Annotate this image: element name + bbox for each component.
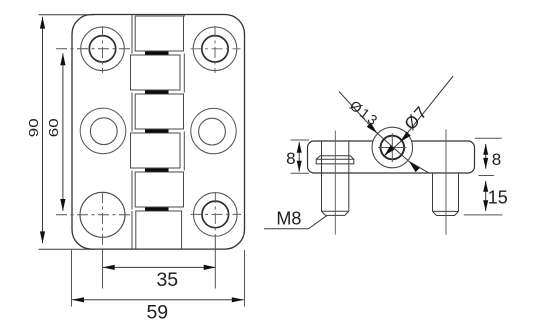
knuckle box 3 [135,94,183,129]
bolt right: shank [433,173,459,211]
knuckle gap mark 4 [145,169,169,172]
screw M8 left: chamfered tip [322,211,349,215]
knuckle gap mark 1 [145,52,169,55]
knuckle box 4 [131,133,181,168]
knuckle box 5 [135,172,183,207]
hole bottom-left [56,192,130,249]
diameter 7 leader line [384,76,453,156]
hole middle-left [80,108,126,154]
bolt right: centerline [445,129,447,234]
hole bottom-right [191,192,242,236]
knuckle box 6 [136,211,182,249]
diameter 13 arrowheads [367,123,378,134]
svg-text:Ø13: Ø13 [347,97,382,129]
hole top-left [56,26,131,73]
knuckle gap mark 5 [145,208,169,211]
hole middle-right [191,108,236,153]
knuckle barrel outer circle [372,127,413,168]
dimension 35 [103,236,216,289]
dimension 8 left [291,140,310,173]
screw M8 left: hole/shank lines [322,141,349,211]
diameter 13 leader line [339,92,429,174]
svg-text:8: 8 [492,150,501,169]
svg-text:15: 15 [488,188,508,208]
left leaf edge at knuckle [131,15,133,249]
knuckle gap mark 2 [145,91,169,94]
knuckle box 1 [135,16,183,51]
svg-text:8: 8 [286,149,295,168]
knuckle box 2 [131,55,181,90]
dimension 8 right [475,138,502,175]
side view bar outline [308,141,475,173]
svg-text:35: 35 [156,269,178,291]
bolt right: chamfered tip [433,211,459,215]
diameter 7 arrowheads [400,132,411,143]
svg-text:Ø7: Ø7 [401,102,432,133]
svg-text:M8: M8 [276,209,301,229]
svg-text:60: 60 [47,118,61,137]
knuckle gap mark 3 [145,130,169,133]
dimension 60 [60,53,65,211]
dimension 90 [39,15,96,250]
barrel crosshair [378,133,407,162]
svg-text:59: 59 [146,302,168,324]
dimension 15 [464,181,503,215]
screw M8 left: centerline [334,131,336,235]
thread label M8 leader [264,216,327,229]
hinge leaf outline (front view) [72,15,245,250]
hole top-right [191,26,241,73]
knuckle pin hole inner circle [381,136,405,160]
dimension 59 [72,250,245,307]
screw M8 left: head [316,156,354,164]
svg-text:90: 90 [27,118,41,137]
right leaf edge at knuckle [183,15,185,171]
